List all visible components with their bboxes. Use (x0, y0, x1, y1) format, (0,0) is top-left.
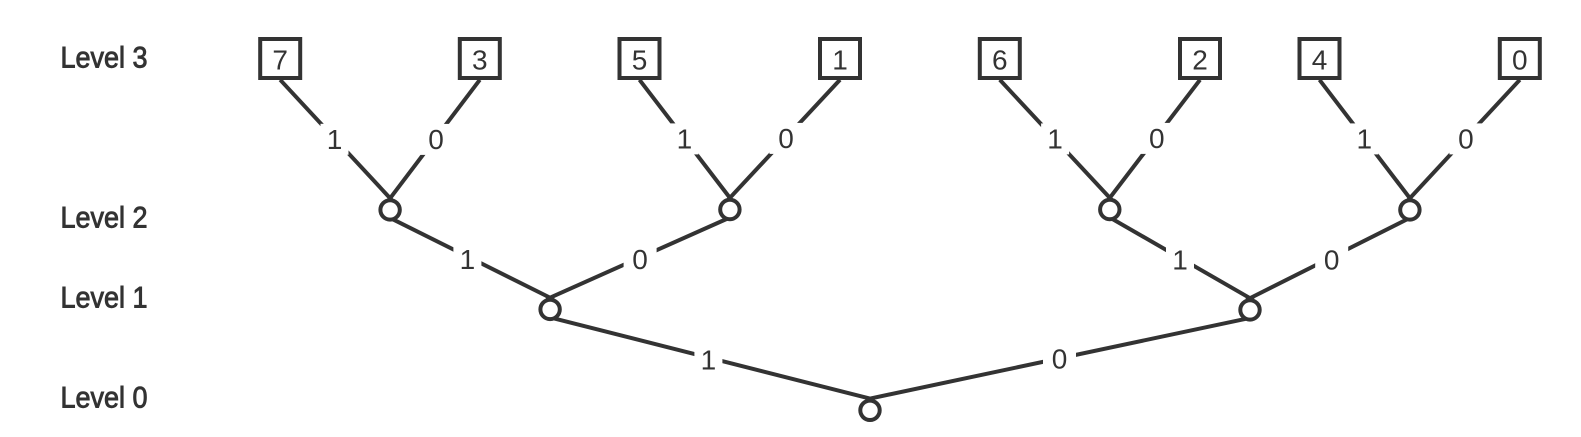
level label Level 3 (61, 42, 148, 75)
leaf box 1 (820, 39, 860, 78)
node level2 d (1400, 200, 1419, 219)
edge n12->n21 bit 1 label text 1 (1172, 245, 1188, 276)
svg-text:0: 0 (1149, 123, 1165, 154)
edge 1->n11 bit 0 label text 0 (778, 123, 794, 154)
edge 5->n11 bit 1 label backdrop (670, 123, 698, 154)
edge 2->n12 bit 0 wire (1107, 80, 1200, 201)
svg-text:0: 0 (428, 124, 444, 155)
edge n20->n30 bit 1 wire (550, 317, 874, 399)
svg-text:Level 0: Level 0 (61, 381, 148, 414)
edge 0->n13 bit 0 label backdrop (1449, 123, 1482, 154)
edge 6->n12 bit 1 label backdrop (1041, 123, 1069, 154)
edge n12->n21 bit 1 wire (1110, 218, 1254, 301)
svg-text:3: 3 (472, 44, 488, 75)
level label Level 2 (61, 201, 148, 234)
leaf box 5 (620, 39, 660, 78)
edge 6->n12 bit 1 label text 1 (1047, 124, 1063, 155)
svg-text:6: 6 (992, 44, 1008, 75)
edge 7->n10 bit 1 label text 1 (327, 124, 343, 155)
edge n13->n21 bit 0 label text 0 (1324, 245, 1340, 276)
svg-text:0: 0 (632, 244, 648, 275)
edge 1->n11 bit 0 label backdrop (770, 123, 803, 154)
svg-text:1: 1 (701, 344, 717, 375)
node level2 a (380, 200, 399, 219)
edge n21->n30 bit 0 label text 0 (1052, 344, 1068, 375)
svg-text:1: 1 (1047, 124, 1063, 155)
edge n10->n20 bit 1 label backdrop (453, 244, 481, 275)
node level0 root (860, 401, 879, 420)
svg-text:Level 3: Level 3 (61, 42, 148, 75)
svg-text:5: 5 (632, 44, 648, 75)
edge n12->n21 bit 1 label backdrop (1166, 244, 1194, 275)
leaf box 0 (1500, 39, 1540, 78)
svg-text:1: 1 (327, 124, 343, 155)
edge n20->n30 bit 1 label text 1 (701, 344, 717, 375)
svg-text:0: 0 (1458, 124, 1474, 155)
edge 7->n10 bit 1 wire (280, 80, 393, 201)
node level2 b (720, 200, 739, 219)
edge n13->n21 bit 0 wire (1246, 218, 1410, 300)
edge 5->n11 bit 1 label text 1 (677, 124, 693, 155)
svg-text:0: 0 (1512, 44, 1528, 75)
edge 6->n12 bit 1 wire (1000, 80, 1113, 201)
edge 4->n13 bit 1 wire (1320, 80, 1413, 202)
leaf box 4 (1300, 39, 1340, 78)
svg-text:1: 1 (1357, 124, 1373, 155)
leaf box 7 (260, 39, 300, 78)
leaf box 2 (1180, 39, 1220, 78)
edge n11->n20 bit 0 wire (546, 218, 730, 300)
edge 2->n12 bit 0 label backdrop (1140, 123, 1173, 154)
leaf box 3 (460, 39, 500, 78)
edge n13->n21 bit 0 label backdrop (1315, 244, 1348, 275)
edge 5->n11 bit 1 wire (640, 80, 733, 201)
edge n10->n20 bit 1 label text 1 (460, 244, 476, 275)
svg-text:1: 1 (677, 124, 693, 155)
edge 2->n12 bit 0 label text 0 (1149, 123, 1165, 154)
node level1 b (1240, 300, 1259, 319)
svg-text:0: 0 (1052, 344, 1068, 375)
svg-text:0: 0 (778, 123, 794, 154)
svg-text:1: 1 (1172, 245, 1188, 276)
edge 3->n10 bit 0 label backdrop (420, 124, 453, 155)
svg-text:Level 1: Level 1 (61, 281, 148, 314)
svg-text:2: 2 (1192, 44, 1208, 75)
svg-text:1: 1 (832, 44, 848, 75)
svg-text:1: 1 (460, 244, 476, 275)
edge n20->n30 bit 1 label backdrop (694, 344, 722, 375)
edge 1->n11 bit 0 wire (727, 80, 840, 201)
leaf box 6 (980, 39, 1020, 78)
edge 0->n13 bit 0 wire (1407, 80, 1520, 201)
edge 3->n10 bit 0 label text 0 (428, 124, 444, 155)
svg-text:4: 4 (1312, 44, 1328, 75)
node level1 a (540, 300, 559, 319)
edge n21->n30 bit 0 wire (866, 318, 1250, 400)
edge n21->n30 bit 0 label backdrop (1043, 344, 1076, 375)
edge n10->n20 bit 1 wire (390, 218, 554, 300)
edge n11->n20 bit 0 label text 0 (632, 244, 648, 275)
edge 3->n10 bit 0 wire (388, 80, 480, 202)
level label Level 0 (61, 381, 148, 414)
node level2 c (1100, 200, 1119, 219)
svg-text:7: 7 (272, 44, 288, 75)
svg-text:0: 0 (1324, 245, 1340, 276)
edge n11->n20 bit 0 label backdrop (624, 244, 657, 275)
edge 0->n13 bit 0 label text 0 (1458, 124, 1474, 155)
svg-text:Level 2: Level 2 (61, 201, 148, 234)
edge 7->n10 bit 1 label backdrop (321, 124, 349, 155)
edge 4->n13 bit 1 label backdrop (1350, 123, 1378, 154)
edge 4->n13 bit 1 label text 1 (1357, 124, 1373, 155)
level label Level 1 (61, 281, 148, 314)
